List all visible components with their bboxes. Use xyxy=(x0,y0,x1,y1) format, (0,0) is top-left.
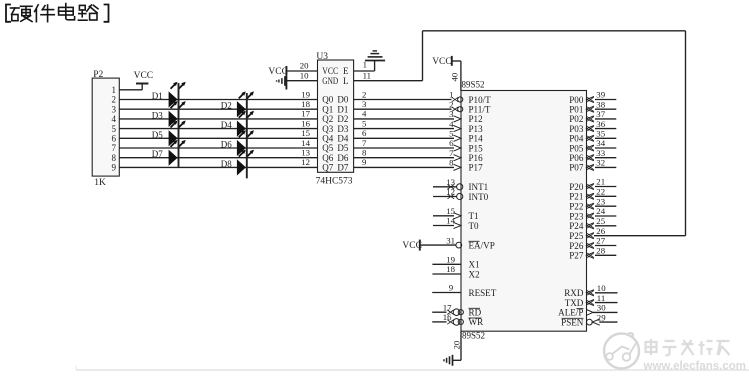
svg-text:24: 24 xyxy=(596,206,605,216)
svg-text:7: 7 xyxy=(449,148,454,158)
89S52 P05 pin 34 xyxy=(587,138,617,151)
ground (U3 pin 10) earth symbol xyxy=(277,76,285,86)
89S52 P21 pin 22 xyxy=(587,187,617,200)
svg-text:X1: X1 xyxy=(469,260,480,270)
svg-text:6: 6 xyxy=(449,138,454,148)
wire P2 pin 9 to U3 Q7 (pin 12) xyxy=(119,166,317,168)
label D1 xyxy=(152,91,163,101)
svg-text:27: 27 xyxy=(596,236,605,246)
svg-text:P2: P2 xyxy=(93,70,103,80)
svg-text:VCC: VCC xyxy=(134,71,154,81)
svg-text:40: 40 xyxy=(450,72,460,81)
svg-text:T1: T1 xyxy=(469,211,479,221)
svg-text:89S52: 89S52 xyxy=(462,331,485,341)
svg-text:30: 30 xyxy=(597,303,606,313)
svg-text:P15: P15 xyxy=(469,143,484,153)
svg-text:25: 25 xyxy=(596,216,605,226)
89S52 RXD pin 10 xyxy=(587,283,618,296)
svg-text:8: 8 xyxy=(112,153,117,163)
svg-text:35: 35 xyxy=(596,129,605,139)
svg-text:U3: U3 xyxy=(316,52,328,62)
89S52 T1 pin 15 xyxy=(433,206,461,219)
power VCC (89S52 pin 40) xyxy=(432,56,452,67)
svg-text:19: 19 xyxy=(301,89,310,99)
svg-text:TXD: TXD xyxy=(565,298,584,308)
svg-text:VCC: VCC xyxy=(432,57,452,67)
svg-text:2: 2 xyxy=(112,95,117,105)
svg-text:P03: P03 xyxy=(569,124,584,134)
wire U3 D3 (pin 5) to 89S52 P13 (pin 4) xyxy=(354,128,454,130)
svg-text:3: 3 xyxy=(362,99,367,109)
svg-text:33: 33 xyxy=(596,148,605,158)
svg-text:23: 23 xyxy=(596,196,605,206)
89S52 INT0 pin 12 xyxy=(433,187,463,200)
svg-text:36: 36 xyxy=(596,119,605,129)
power VCC (U3 pin 20) xyxy=(268,66,288,90)
svg-text:P27: P27 xyxy=(569,251,584,261)
svg-text:28: 28 xyxy=(596,246,605,256)
power VCC (P2 pin 1) xyxy=(134,71,154,83)
svg-text:INT1: INT1 xyxy=(469,182,489,192)
svg-text:89S52: 89S52 xyxy=(462,80,485,90)
latch U3 74HC573 xyxy=(316,52,354,187)
89S52 P04 pin 35 xyxy=(587,129,617,142)
svg-text:4: 4 xyxy=(112,114,117,124)
wire U3 pin 10 stub xyxy=(286,80,317,82)
title [硬件电路] hand-drawn glyphs xyxy=(6,4,109,22)
svg-text:D6: D6 xyxy=(221,140,232,150)
svg-text:5: 5 xyxy=(362,118,367,128)
svg-text:3: 3 xyxy=(449,109,454,119)
svg-text:3: 3 xyxy=(112,104,117,114)
wire cathode bus (D2 D4 D6 D8) xyxy=(246,93,248,178)
svg-text:D3: D3 xyxy=(337,124,348,134)
svg-text:Q5: Q5 xyxy=(322,143,333,153)
svg-text:D4: D4 xyxy=(221,120,232,130)
89S52 PSEN pin 29 xyxy=(587,312,618,325)
svg-text:RESET: RESET xyxy=(469,288,497,298)
svg-text:Q6: Q6 xyxy=(322,153,333,163)
svg-text:L: L xyxy=(343,76,349,86)
label D5 xyxy=(152,130,163,140)
89S52 TXD pin 11 xyxy=(587,293,618,306)
89S52 P07 pin 32 xyxy=(587,158,617,171)
svg-text:11: 11 xyxy=(597,293,605,303)
svg-text:P16: P16 xyxy=(469,153,484,163)
LED D7 xyxy=(169,140,186,166)
svg-text:9: 9 xyxy=(112,163,117,173)
label D4 xyxy=(221,120,232,130)
svg-text:20: 20 xyxy=(451,340,461,349)
89S52 P03 pin 36 xyxy=(587,119,617,132)
svg-text:10: 10 xyxy=(597,283,606,293)
svg-text:13: 13 xyxy=(446,177,455,187)
LED D1 xyxy=(169,82,186,108)
svg-text:9: 9 xyxy=(362,157,367,167)
89S52 right pin labels xyxy=(558,95,584,328)
89S52 P22 pin 23 xyxy=(587,196,617,209)
wire U3 D6 (pin 8) to 89S52 P16 (pin 7) xyxy=(354,157,454,159)
svg-text:18: 18 xyxy=(301,99,310,109)
wire VCC to 89S52 pin 40 xyxy=(450,61,461,91)
svg-text:7: 7 xyxy=(362,138,367,148)
label D8 xyxy=(221,159,232,169)
89S52 P06 pin 33 xyxy=(587,148,617,161)
svg-text:6: 6 xyxy=(112,134,117,144)
power VCC (EA/VP pin 31) xyxy=(402,240,422,251)
svg-text:26: 26 xyxy=(596,226,605,236)
wire P2 pin 8 to U3 Q6 (pin 13) xyxy=(119,157,317,159)
wire P2 pin 2 to U3 Q0 (pin 19) xyxy=(119,99,317,101)
svg-text:2: 2 xyxy=(362,89,366,99)
svg-text:12: 12 xyxy=(446,187,455,197)
svg-text:P25: P25 xyxy=(569,231,584,241)
watermark text (stylised CJK strokes) xyxy=(646,339,730,355)
wire cathode bus (D1 D3 D5 D7) xyxy=(178,83,180,167)
LED D2 xyxy=(237,91,254,117)
svg-text:Q3: Q3 xyxy=(322,124,333,134)
89S52 P24 pin 25 xyxy=(587,216,617,229)
wire P2 pin 5 to U3 Q3 (pin 16) xyxy=(119,128,317,130)
svg-text:P17: P17 xyxy=(469,163,484,173)
svg-text:D5: D5 xyxy=(152,130,163,140)
svg-text:7: 7 xyxy=(112,143,117,153)
svg-text:P20: P20 xyxy=(569,182,584,192)
svg-text:P24: P24 xyxy=(569,221,584,231)
LED D6 xyxy=(237,130,254,156)
ground (89S52 pin 20) earth symbol xyxy=(444,355,453,366)
svg-text:15: 15 xyxy=(301,128,310,138)
U3 pin numbers 20/10 and 19-12 xyxy=(300,61,311,168)
svg-text:74HC573: 74HC573 xyxy=(316,177,353,187)
svg-text:RD: RD xyxy=(469,307,482,317)
svg-text:D7: D7 xyxy=(152,149,163,159)
wire U3 D1 (pin 3) to 89S52 P11 (pin 2) xyxy=(354,108,452,110)
89S52 pins 1-8 decorations xyxy=(449,90,463,171)
MCU U2 89S52 xyxy=(461,80,587,341)
89S52 P01 pin 38 xyxy=(587,99,617,112)
svg-text:P21: P21 xyxy=(569,192,583,202)
svg-text:P07: P07 xyxy=(569,163,584,173)
89S52 P20 pin 21 xyxy=(587,177,617,190)
svg-text:P01: P01 xyxy=(569,105,583,115)
svg-text:D8: D8 xyxy=(221,159,232,169)
svg-text:8: 8 xyxy=(362,148,367,158)
svg-text:P26: P26 xyxy=(569,241,584,251)
svg-text:Q4: Q4 xyxy=(322,134,333,144)
svg-text:14: 14 xyxy=(301,138,310,148)
svg-text:GND: GND xyxy=(322,76,338,86)
svg-text:17: 17 xyxy=(301,109,310,119)
svg-text:D6: D6 xyxy=(337,153,348,163)
label D7 xyxy=(152,149,163,159)
svg-text:PSEN: PSEN xyxy=(561,317,584,327)
svg-text:P23: P23 xyxy=(569,211,584,221)
svg-text:1K: 1K xyxy=(94,178,106,188)
svg-text:T0: T0 xyxy=(469,221,480,231)
svg-text:RXD: RXD xyxy=(564,288,584,298)
wire P2 pin 4 to U3 Q2 (pin 17) xyxy=(119,118,317,120)
svg-text:13: 13 xyxy=(301,148,310,158)
LED D5 xyxy=(169,121,186,147)
svg-text:37: 37 xyxy=(596,109,605,119)
89S52 left pin labels xyxy=(469,95,497,327)
svg-text:32: 32 xyxy=(596,158,605,168)
svg-text:16: 16 xyxy=(301,118,310,128)
89S52 INT1 pin 13 xyxy=(433,177,463,190)
svg-text:1: 1 xyxy=(112,85,117,95)
wire U3 D2 (pin 4) to 89S52 P12 (pin 3) xyxy=(354,118,454,120)
svg-text:INT0: INT0 xyxy=(469,192,489,202)
svg-text:D1: D1 xyxy=(337,104,348,114)
svg-text:D1: D1 xyxy=(152,91,163,101)
wire P2 pin 3 to U3 Q1 (pin 18) xyxy=(119,108,317,110)
svg-text:Q0: Q0 xyxy=(322,95,333,105)
label D3 xyxy=(152,110,163,120)
wire P2 pin1 to VCC xyxy=(119,84,142,90)
svg-text:9: 9 xyxy=(449,283,454,293)
svg-text:31: 31 xyxy=(446,235,455,245)
svg-text:P02: P02 xyxy=(569,114,584,124)
svg-text:Q1: Q1 xyxy=(322,104,333,114)
89S52 P23 pin 24 xyxy=(587,206,617,219)
89S52 P25 pin 26 xyxy=(587,226,606,239)
svg-text:4: 4 xyxy=(362,109,367,119)
svg-text:D0: D0 xyxy=(337,95,348,105)
svg-text:D7: D7 xyxy=(337,163,348,173)
svg-text:8: 8 xyxy=(449,158,454,168)
connector P2 (resistor network, 1K) xyxy=(92,70,119,188)
wire U3 pin 20 stub xyxy=(286,70,317,72)
svg-text:D2: D2 xyxy=(337,114,348,124)
svg-text:D3: D3 xyxy=(152,110,163,120)
89S52 WR pin 16 xyxy=(432,312,463,325)
89S52 X2 pin 18 xyxy=(432,264,461,274)
wire 89S52 pin 20 to ground xyxy=(451,331,461,360)
LED D3 xyxy=(169,101,186,127)
89S52 X1 pin 19 xyxy=(432,255,461,265)
svg-text:6: 6 xyxy=(362,128,367,138)
svg-text:15: 15 xyxy=(446,206,455,216)
svg-text:10: 10 xyxy=(300,70,309,80)
wire U3 D4 (pin 6) to 89S52 P14 (pin 5) xyxy=(354,137,454,139)
wire U3 pin 1 to ground xyxy=(354,61,375,72)
89S52 RD pin 17 xyxy=(432,302,463,315)
LED D4 xyxy=(237,111,254,137)
svg-text:ALE/P: ALE/P xyxy=(558,308,583,318)
svg-text:Q7: Q7 xyxy=(322,163,333,173)
wire U3 D7 (pin 9) to 89S52 P17 (pin 8) xyxy=(354,166,454,168)
svg-text:P13: P13 xyxy=(469,124,484,134)
svg-text:D2: D2 xyxy=(221,101,232,111)
89S52 P27 pin 28 xyxy=(587,246,617,259)
svg-text:P04: P04 xyxy=(569,134,584,144)
svg-text:VCC: VCC xyxy=(322,66,338,76)
svg-text:19: 19 xyxy=(446,255,455,265)
svg-text:12: 12 xyxy=(301,157,310,167)
svg-text:20: 20 xyxy=(300,61,309,71)
svg-text:P00: P00 xyxy=(569,95,584,105)
svg-text:P22: P22 xyxy=(569,202,584,212)
89S52 P00 pin 39 xyxy=(587,90,617,103)
svg-text:P11/T: P11/T xyxy=(469,105,491,115)
svg-text:38: 38 xyxy=(596,99,605,109)
svg-text:X2: X2 xyxy=(469,269,481,279)
watermark elecfans logo xyxy=(604,333,639,369)
svg-text:P14: P14 xyxy=(469,134,484,144)
svg-text:11: 11 xyxy=(363,70,371,80)
sheet border (decorative) xyxy=(76,366,749,370)
svg-text:22: 22 xyxy=(596,187,605,197)
svg-text:4: 4 xyxy=(449,119,454,129)
ground (above U3 pin 1) xyxy=(365,51,385,61)
wire P2 pin 7 to U3 Q5 (pin 14) xyxy=(119,147,317,149)
wire U3 pin 11 (L) to 89S52 P25 (top rail) xyxy=(354,31,686,236)
svg-text:29: 29 xyxy=(597,312,606,322)
svg-text:E: E xyxy=(343,66,349,76)
svg-text:P05: P05 xyxy=(569,143,584,153)
svg-text:P12: P12 xyxy=(469,114,484,124)
89S52 P26 pin 27 xyxy=(587,236,617,249)
svg-text:39: 39 xyxy=(596,90,605,100)
wire P2 pin 6 to U3 Q4 (pin 15) xyxy=(119,137,317,139)
svg-text:WR: WR xyxy=(469,317,485,327)
svg-text:www.elecfans.com: www.elecfans.com xyxy=(643,361,746,373)
svg-text:D4: D4 xyxy=(337,134,348,144)
label D2 xyxy=(221,101,232,111)
svg-text:34: 34 xyxy=(596,138,605,148)
svg-text:5: 5 xyxy=(112,124,117,134)
LED D8 xyxy=(237,150,254,176)
89S52 P02 pin 37 xyxy=(587,109,617,122)
wire U3 D0 (pin 2) to 89S52 P10 (pin 1) xyxy=(354,99,452,101)
svg-text:D5: D5 xyxy=(337,143,348,153)
svg-text:21: 21 xyxy=(596,177,605,187)
wire VCC to EA/VP pin 31 xyxy=(420,235,462,248)
svg-text:P06: P06 xyxy=(569,153,584,163)
svg-text:16: 16 xyxy=(443,312,452,322)
svg-text:14: 14 xyxy=(446,216,455,226)
89S52 T0 pin 14 xyxy=(433,216,461,229)
U3 pin numbers 1/11 and 2-9 xyxy=(362,60,371,168)
svg-text:18: 18 xyxy=(446,264,455,274)
label D6 xyxy=(221,140,232,150)
svg-text:P10/T: P10/T xyxy=(469,95,492,105)
svg-text:17: 17 xyxy=(443,302,452,312)
svg-text:5: 5 xyxy=(449,129,454,139)
svg-text:Q2: Q2 xyxy=(322,114,333,124)
89S52 RESET pin 9 xyxy=(432,283,461,293)
wire U3 D5 (pin 7) to 89S52 P15 (pin 6) xyxy=(354,147,454,149)
svg-text:VCC: VCC xyxy=(268,67,288,77)
89S52 ALE/P pin 30 xyxy=(587,303,618,316)
svg-text:EA/VP: EA/VP xyxy=(469,240,495,250)
